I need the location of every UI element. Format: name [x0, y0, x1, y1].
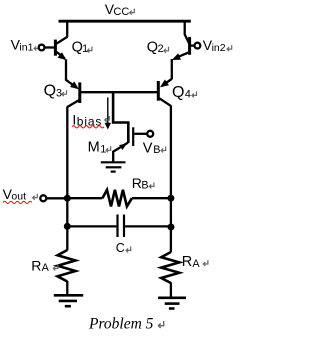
svg-text:Q: Q: [44, 82, 56, 99]
svg-text:I: I: [72, 112, 76, 128]
svg-text:C: C: [116, 241, 125, 255]
svg-text:B: B: [153, 144, 160, 156]
label Ibias: [72, 112, 109, 129]
svg-text:M: M: [88, 140, 100, 156]
svg-text:4: 4: [185, 89, 191, 101]
wire: base node down to M1 drain: [113, 91, 127, 122]
transistor Q4 (PNP): [158, 79, 171, 106]
terminal Vout: [40, 195, 46, 201]
svg-text:2: 2: [158, 43, 164, 55]
wire: Q3 collector rail down to RA (left): [66, 107, 68, 251]
label Q4: [172, 84, 197, 101]
ground (right RA): [158, 298, 186, 309]
svg-text:1: 1: [100, 143, 106, 155]
transistor Q1 (NPN): [55, 37, 67, 61]
svg-text:1: 1: [82, 43, 88, 55]
wire: Q2 emitter to Q4 emitter: [171, 59, 173, 79]
svg-text:Q: Q: [147, 40, 158, 56]
svg-text:B: B: [141, 180, 148, 192]
label Q2: [147, 40, 169, 56]
svg-text:Q: Q: [172, 84, 184, 101]
wire: Q1 emitter to Q3 emitter: [65, 59, 67, 80]
wire: Q4 collector rail down to RA (right): [170, 106, 172, 253]
svg-text:R: R: [182, 254, 192, 270]
svg-text:Problem 5: Problem 5: [88, 315, 154, 332]
label VB: [143, 141, 166, 157]
wire: Vin1 to Q1 base: [45, 46, 55, 48]
label M1: [88, 140, 111, 156]
svg-text:A: A: [192, 258, 200, 270]
node: right C junction: [168, 224, 175, 231]
terminal Vin2: [195, 43, 201, 49]
label Vout: [3, 186, 38, 204]
label RA (right): [182, 254, 208, 270]
terminal VB: [147, 131, 153, 137]
transistor Q3 (PNP): [66, 80, 80, 107]
label C: [116, 241, 131, 255]
wire: M1 gate lead: [134, 133, 147, 135]
wire: VCC drop to Q2 collector: [184, 20, 186, 35]
transistor M1 (NMOS): [113, 121, 133, 162]
current arrow Ibias: [105, 97, 111, 129]
transistor Q2 (NPN): [172, 34, 190, 60]
label RB: [132, 175, 154, 192]
label RA (left): [31, 257, 58, 274]
terminal Vin1: [39, 45, 45, 51]
label Q1: [72, 39, 92, 55]
label Q3: [44, 82, 67, 99]
wire: Vout to left rail: [46, 197, 67, 199]
wire: VCC power rail: [59, 20, 191, 23]
resistor RA (right): [161, 252, 179, 298]
wire: Vin2 to Q2 base: [191, 44, 195, 46]
ground (below M1 source): [101, 162, 126, 171]
node: right RB junction: [167, 195, 174, 202]
svg-text:R: R: [31, 257, 41, 273]
svg-text:CC: CC: [113, 6, 129, 18]
wire: Q3 base to Q4 base: [81, 91, 157, 93]
caption: Problem 5: [88, 315, 164, 332]
node: left C junction: [64, 223, 71, 230]
svg-text:3: 3: [56, 87, 62, 99]
svg-text:in2: in2: [212, 42, 226, 54]
label VCC: [105, 1, 135, 18]
label Vin2: [203, 37, 232, 54]
svg-text:in1: in1: [19, 41, 33, 53]
svg-text:V: V: [143, 141, 153, 157]
ground (left RA): [54, 295, 83, 306]
capacitor C: [67, 215, 171, 238]
svg-text:A: A: [42, 262, 50, 274]
label Vin1: [11, 37, 39, 54]
resistor RB: [67, 190, 171, 207]
node: left RB junction: [64, 195, 71, 202]
resistor RA (left): [58, 250, 76, 296]
wire: VCC drop to Q1 collector: [66, 20, 68, 37]
